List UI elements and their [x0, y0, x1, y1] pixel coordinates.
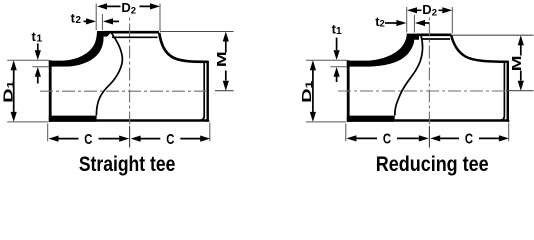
reducing tee: branch top edge (thin part) — [417, 33, 451, 36]
dimension D1 (reducing): extension lines — [306, 60, 347, 122]
dimension t2: right extension line — [101, 14, 103, 30]
reducing tee: branch end bevel line — [422, 38, 451, 40]
dimension t1 (reducing): inner extension line — [331, 66, 348, 68]
straight tee: horizontal centerline — [40, 90, 208, 92]
straight tee: right end outer face line — [206, 61, 208, 122]
straight tee: sectioned run-top wall and branch left wall (filled black band) — [49, 31, 110, 67]
dimension M (reducing): top extension line — [452, 34, 533, 36]
dimension t1: down arrow — [37, 44, 39, 52]
straight tee: right end inner face line — [200, 63, 204, 121]
reducing tee: inner crotch S-curve — [395, 36, 423, 116]
straight tee: sectioned run-bottom wall (filled black band) — [49, 116, 97, 122]
reducing tee: run bottom edge (thin part) — [395, 119, 509, 122]
straight tee: branch vertical centerline — [129, 18, 131, 127]
straight tee: inner crotch S-curve — [96, 32, 122, 115]
straight tee: run bottom edge (thin part) — [97, 119, 209, 122]
dimension t2 (reducing): left arrow (pointing right) — [385, 22, 397, 24]
svg-text:M: M — [215, 51, 229, 67]
svg-text:C: C — [383, 130, 392, 147]
dimension t1: up arrow — [35, 67, 41, 77]
dimension t1 (reducing): up arrow — [334, 67, 340, 77]
straight tee: branch right fillet curve into run top edge — [159, 33, 208, 62]
dimension t2: left arrow (pointing right) — [84, 20, 88, 22]
dimension t1 (reducing): down arrow — [336, 38, 338, 51]
dimension M (reducing): bottom extension line — [506, 90, 534, 92]
dimension t2 (reducing): right arrow (pointing left) — [424, 22, 430, 24]
svg-text:C: C — [166, 131, 175, 148]
dimension D2 (reducing): extension lines — [407, 7, 453, 34]
reducing tee: horizontal centerline — [338, 90, 507, 92]
dimension C: extension lines — [48, 123, 210, 142]
reducing tee: right end inner face line — [500, 63, 504, 121]
reducing tee: branch vertical centerline — [428, 18, 430, 127]
straight tee: left end face line — [49, 60, 52, 122]
dimension t2: right arrow (pointing left) — [113, 20, 120, 22]
dimension M: dimension line with arrows — [225, 42, 227, 81]
dimension C right: arrows and line — [140, 138, 200, 140]
reducing tee: sectioned run-bottom wall (filled black band) — [347, 116, 395, 122]
reducing tee: right end outer face line — [507, 61, 509, 122]
reducing tee: branch right fillet curve into run top edge — [451, 35, 509, 62]
dimension D1 (reducing): dimension line with arrows — [312, 68, 314, 114]
straight tee: branch end bevel line — [112, 36, 158, 38]
dimension M: top extension line — [160, 31, 234, 33]
dimension C (reducing): extension lines — [346, 123, 509, 142]
dimension C left (reducing): arrows and line — [356, 137, 419, 139]
dimension t1: inner extension line — [33, 66, 50, 68]
svg-text:M: M — [510, 55, 524, 71]
reducing tee: sectioned run-top wall and branch left wall (filled black band) — [347, 34, 419, 67]
dimension C (reducing): center divider tick — [428, 126, 430, 148]
svg-text:Straight tee: Straight tee — [79, 153, 176, 176]
straight tee: branch top edge (thin part) — [105, 31, 159, 34]
dimension D1: dimension line with arrows — [13, 68, 15, 114]
reducing tee: left end face line — [347, 60, 350, 122]
dimension C: center divider tick — [129, 126, 131, 148]
dimension M: bottom extension line — [215, 90, 234, 92]
dimension C right (reducing): arrows and line — [440, 137, 499, 139]
svg-text:Reducing tee: Reducing tee — [376, 153, 489, 176]
dimension t2 (reducing): right extension line — [413, 15, 415, 33]
dimension M (reducing): dimension line with arrows — [520, 45, 522, 81]
dimension D1: extension lines — [7, 60, 49, 122]
dimension C left: arrows and line — [58, 138, 120, 140]
reducing tee: right end bottom bevel foot — [507, 116, 510, 121]
dimension D2 (reducing): dimension line with outward arrows — [416, 9, 443, 11]
svg-text:C: C — [465, 130, 474, 147]
straight tee: right end bottom bevel foot — [207, 116, 210, 121]
svg-text:C: C — [84, 131, 93, 148]
dimension D2: dimension line with outward arrows — [106, 5, 151, 7]
dimension D2: extension lines — [96, 4, 160, 32]
